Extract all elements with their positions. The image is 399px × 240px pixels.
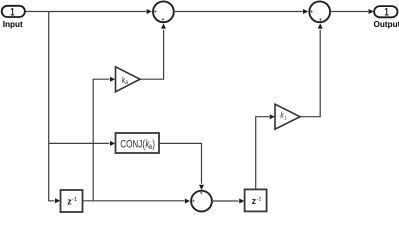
sum block S2 — [309, 1, 330, 22]
inport block Input — [2, 6, 25, 19]
wire Sum3 to Delay2 — [213, 200, 239, 202]
arrowhead into Sum3 left — [185, 199, 190, 204]
wire CONJ output down to Sum3 top — [159, 143, 202, 183]
arrowhead into Delay1 left — [55, 198, 60, 203]
wire Delay1 output to Sum3 — [83, 200, 185, 202]
wire Input to Sum1 — [25, 11, 146, 13]
arrowhead into Output port — [369, 9, 374, 14]
gain block ki — [275, 104, 300, 129]
wire tap from Delay1 output up to gain ka — [93, 79, 109, 201]
sum block S1 — [153, 1, 174, 22]
sum block S3 — [191, 191, 212, 212]
arrowhead into Sum3 top — [199, 185, 204, 190]
conjugate block CONJ(ka) — [116, 133, 160, 153]
arrowhead into Sum2 left — [303, 9, 308, 14]
wire Sum2 to Output — [331, 11, 368, 13]
svg-text:-1: -1 — [257, 196, 262, 202]
svg-text:): ) — [152, 138, 155, 151]
wire branch to CONJ block — [49, 142, 110, 144]
gain block ka — [116, 67, 141, 92]
wire Delay2 output up to gain ki — [256, 117, 269, 190]
svg-text:-1: -1 — [72, 197, 77, 203]
svg-text:Input: Input — [3, 20, 23, 29]
arrowhead into gain ki left — [270, 114, 275, 119]
arrowhead into Sum2 bottom — [318, 23, 323, 28]
wire gain ki output up to Sum2 bottom — [300, 30, 320, 117]
wire gain ka output up to Sum1 bottom — [140, 30, 164, 79]
arrowhead into gain ka left — [110, 77, 115, 82]
wire Sum1 to Sum2 — [175, 11, 303, 13]
svg-text:CONJ(: CONJ( — [120, 138, 145, 151]
arrowhead into Delay2 left — [239, 199, 244, 204]
svg-text:Output: Output — [374, 20, 399, 29]
delay block Delay2 — [245, 189, 267, 211]
outport block Output — [374, 6, 397, 19]
delay block Delay1 — [61, 190, 83, 212]
wire branch down from input node to Delay1 — [49, 12, 55, 201]
svg-text:1: 1 — [10, 6, 15, 19]
arrowhead into Sum1 left — [147, 9, 152, 14]
svg-text:1: 1 — [384, 6, 389, 19]
arrowhead into CONJ left — [110, 141, 115, 146]
arrowhead into Sum1 bottom — [161, 23, 166, 28]
